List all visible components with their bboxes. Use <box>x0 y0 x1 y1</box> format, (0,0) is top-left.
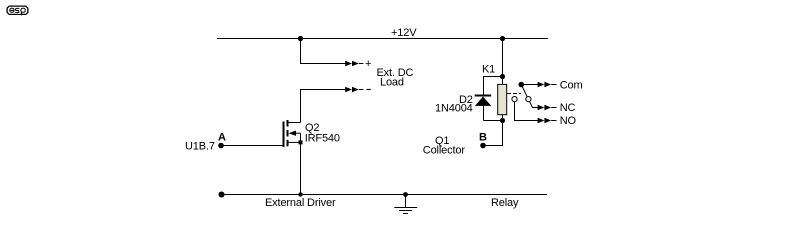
node A <box>218 143 224 149</box>
junction J1 (+12V / load branch) <box>298 36 303 41</box>
arrow NO <box>538 118 557 124</box>
ground <box>394 195 417 214</box>
svg-text:IRF540: IRF540 <box>305 132 340 144</box>
drain stub <box>289 122 301 124</box>
channel segment body <box>287 130 289 137</box>
arrow Ext DC Load plus <box>345 61 363 67</box>
wire NC <box>530 102 539 108</box>
wire +12V rail <box>217 38 548 40</box>
relay NC contact <box>526 97 531 102</box>
junction ground / bottom rail <box>403 192 408 197</box>
wire drain to Ext DC Load minus <box>301 90 346 123</box>
arrow NC <box>538 105 557 111</box>
arrow Com <box>538 82 557 88</box>
svg-text:1N4004: 1N4004 <box>435 103 473 115</box>
junction relay top <box>500 74 505 79</box>
svg-text:A: A <box>218 132 226 144</box>
diode D2 <box>475 96 492 121</box>
junction relay bottom <box>500 118 505 123</box>
svg-text:External Driver: External Driver <box>265 197 336 209</box>
svg-text:B: B <box>479 132 487 144</box>
transistor Q2 <box>284 120 303 147</box>
gate bar <box>283 122 285 148</box>
ESP logo <box>7 6 28 15</box>
wire bottom rail <box>221 194 547 196</box>
junction source / bottom rail <box>298 192 302 196</box>
svg-text:K1: K1 <box>482 64 495 76</box>
wire diode bottom branch <box>484 120 503 122</box>
svg-text:U1B.7: U1B.7 <box>185 140 215 152</box>
svg-text:+12V: +12V <box>391 27 417 39</box>
wire Com <box>523 84 538 86</box>
label minus terminal <box>367 89 371 91</box>
wire NO <box>515 102 539 121</box>
wire +12V to Ext DC Load plus <box>301 39 346 64</box>
wire gate from node A <box>222 145 283 147</box>
channel segment drain <box>287 120 289 127</box>
relay actuator dashed link <box>507 93 521 95</box>
svg-text:NO: NO <box>560 115 577 127</box>
wire relay to node B <box>484 121 503 146</box>
junction J2 (+12V / relay branch) <box>500 36 505 41</box>
relay common pole <box>519 82 528 97</box>
source junction square <box>299 140 303 144</box>
node B <box>480 143 486 149</box>
wire source to bottom rail <box>300 142 302 194</box>
relay K1 coil <box>498 77 507 121</box>
arrow Ext DC Load minus <box>345 87 363 93</box>
svg-text:Collector: Collector <box>423 145 466 157</box>
svg-text:NC: NC <box>560 102 576 114</box>
svg-text:Load: Load <box>380 77 404 89</box>
wire diode top branch <box>484 77 503 96</box>
body arrow <box>289 131 297 136</box>
terminal dot bottom rail left <box>219 192 225 198</box>
svg-text:Relay: Relay <box>491 197 519 209</box>
source stub <box>289 141 301 143</box>
wire +12V to relay coil <box>502 39 504 77</box>
svg-text:+: + <box>365 58 371 70</box>
svg-text:Com: Com <box>560 79 583 91</box>
relay NO contact <box>512 97 517 102</box>
channel segment source <box>287 140 289 147</box>
